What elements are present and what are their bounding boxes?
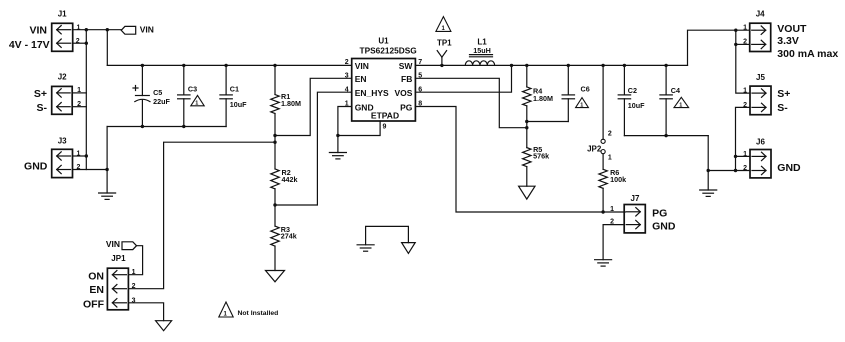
svg-text:C2: C2 [628, 86, 637, 95]
svg-text:ON: ON [88, 270, 104, 282]
svg-text:J5: J5 [756, 73, 765, 82]
ground (U1, earth bars) [329, 153, 346, 159]
inductor L1 15uH [465, 37, 494, 65]
svg-text:GND: GND [24, 161, 48, 173]
wire U1 EN_HYS to R2/R3 node [275, 92, 352, 205]
svg-text:2: 2 [743, 39, 747, 46]
svg-text:JP1: JP1 [111, 254, 126, 263]
resistor R6 100k [599, 154, 626, 189]
svg-text:576k: 576k [533, 152, 549, 161]
resistor R5 576k [523, 145, 550, 167]
svg-text:C6: C6 [581, 85, 590, 94]
wire U1 GND to ground [338, 107, 352, 153]
junction dots VOUT rail [440, 64, 668, 67]
net flag VIN (top) [121, 25, 154, 35]
svg-text:1: 1 [132, 269, 136, 276]
wire ETPAD pin9 stub [338, 121, 380, 136]
wire R6 to PG node [602, 188, 604, 212]
svg-text:VIN: VIN [140, 25, 154, 35]
svg-text:EN: EN [355, 74, 367, 84]
wire J4.2 branch to J5.1 [736, 30, 750, 93]
wire VOUT rail riser to J4 [688, 30, 750, 65]
resistor R3 274k [271, 225, 297, 246]
wire J4 pin2 stub [736, 43, 750, 45]
resistor R2 442k [271, 168, 298, 189]
svg-text:J7: J7 [631, 194, 640, 203]
wire J3 pin2 to ground drop [73, 169, 108, 171]
svg-text:1: 1 [743, 88, 747, 95]
ground (output, earth bars) [700, 190, 717, 196]
wire VIN flag to JP1 pin1 [128, 246, 142, 275]
wire input bus vertical (J1.2-J2-J3) [85, 30, 87, 170]
wire J2 pin1 stub [72, 92, 86, 94]
ground triangle (R5) [519, 186, 535, 199]
wire input ground rail (caps bottom) [107, 126, 226, 128]
wire ground tie bracket [366, 226, 409, 244]
svg-text:15uH: 15uH [473, 46, 491, 55]
svg-text:TP1: TP1 [437, 39, 452, 48]
U1 pin numbers [345, 59, 423, 130]
svg-text:JP2: JP2 [587, 144, 602, 153]
test point TP1 [437, 39, 452, 66]
connector J7 (PG/GND) [610, 194, 676, 233]
connector J5 (sense S+/S-) [743, 73, 790, 115]
svg-text:S+: S+ [777, 88, 790, 100]
svg-text:C1: C1 [230, 85, 239, 94]
wire J1 pin2 stub [73, 42, 87, 44]
svg-text:C4: C4 [671, 86, 680, 95]
svg-text:J4: J4 [756, 9, 765, 18]
svg-text:100k: 100k [610, 175, 626, 184]
svg-text:1: 1 [679, 103, 682, 109]
not-installed marker triangle 1 (TP1) [436, 17, 451, 32]
capacitor C4 (not installed) [660, 65, 680, 135]
wire R1-R2 node (EN divider) [274, 114, 276, 169]
svg-text:1: 1 [195, 101, 198, 107]
svg-text:S-: S- [37, 102, 48, 114]
wire output ground drop [707, 136, 709, 190]
svg-text:PG: PG [652, 207, 667, 219]
svg-text:1: 1 [743, 151, 747, 158]
svg-text:ETPAD: ETPAD [371, 110, 399, 120]
capacitor C3 (not installed) [178, 65, 198, 126]
wire J1 pin1 to VIN flag [73, 29, 122, 31]
wire JP1 pin3 to ground triangle [128, 303, 163, 321]
junction dots input bus [85, 28, 109, 171]
wire VIN rail (node VIN) [107, 64, 351, 66]
svg-text:1.80M: 1.80M [533, 94, 553, 103]
svg-text:PG: PG [400, 102, 413, 112]
connector JP1 (ON/EN/OFF header) [83, 254, 136, 310]
wire U1 VOS to VOUT rail [415, 65, 511, 92]
svg-text:J2: J2 [58, 73, 67, 82]
svg-text:3.3V: 3.3V [777, 35, 799, 47]
svg-text:2: 2 [743, 102, 747, 109]
ground triangle (JP1) [156, 321, 172, 331]
not-installed marker triangle 1 (C4) [674, 97, 689, 108]
svg-text:10uF: 10uF [230, 100, 247, 109]
connector J2 (sense S+/S-) [34, 73, 81, 115]
wire J5.2 branch to J6 [736, 107, 751, 170]
svg-text:2: 2 [743, 165, 747, 172]
svg-text:EN_HYS: EN_HYS [355, 88, 389, 98]
net flag VIN (JP1) [106, 239, 137, 250]
svg-text:OFF: OFF [83, 298, 105, 310]
svg-text:J3: J3 [58, 137, 67, 146]
ground triangle (tie) [402, 243, 416, 254]
svg-text:274k: 274k [281, 231, 297, 240]
connector J6 (GND) [743, 138, 801, 178]
wire R3 to ground triangle [274, 246, 276, 270]
resistor R1 1.80M [271, 65, 301, 113]
svg-text:C5: C5 [153, 88, 162, 97]
wire U1 EN to R1/R2 node [275, 78, 352, 135]
svg-text:S-: S- [777, 102, 788, 114]
svg-text:1: 1 [743, 25, 747, 32]
connector J3 (GND) [24, 137, 80, 178]
wire J6 pin2 to ground rail [708, 170, 750, 172]
svg-text:9: 9 [383, 123, 387, 130]
wire U1 PG to J7 (node PG) [415, 107, 625, 213]
wire SW rail / VOUT node [415, 64, 687, 66]
svg-text:GND: GND [777, 162, 801, 174]
op-amp/regulator U1 TPS62125DSG [352, 36, 417, 121]
wire R4 to R5 (FB node) [526, 106, 528, 148]
svg-text:1: 1 [610, 206, 614, 213]
svg-text:2: 2 [345, 59, 349, 66]
svg-text:2: 2 [76, 38, 80, 45]
svg-text:1: 1 [608, 155, 612, 162]
ground (tie, earth bars) [357, 245, 374, 251]
ground (J7, earth bars) [595, 260, 612, 266]
jumper JP2 [587, 65, 612, 161]
svg-text:VOUT: VOUT [777, 23, 807, 35]
wire J7 pin2 to ground [603, 225, 624, 260]
not-installed marker triangle 1 (C6) [576, 98, 589, 109]
connector J1 (VIN input) [9, 10, 81, 52]
svg-text:C3: C3 [188, 85, 197, 94]
wire JP1 pin2 to EN node [128, 142, 275, 289]
capacitor C6 (not installed) [562, 65, 590, 121]
svg-text:22uF: 22uF [153, 97, 170, 106]
svg-text:SW: SW [399, 61, 414, 71]
wire R2-R3 node [274, 189, 276, 226]
wire U1 FB to R4/R5 node [415, 78, 526, 127]
resistor R4 1.80M [523, 65, 553, 106]
connector J4 (VOUT) [743, 9, 838, 60]
wire output ground rail [624, 135, 708, 137]
svg-text:442k: 442k [282, 175, 298, 184]
wire ground drop left [106, 127, 108, 194]
wire R5 to ground triangle [526, 167, 528, 187]
svg-text:U1: U1 [378, 36, 389, 45]
svg-text:VOS: VOS [394, 88, 412, 98]
legend: not-installed triangle symbol [219, 302, 233, 317]
ground triangle (R3) [266, 271, 285, 282]
svg-text:EN: EN [89, 284, 104, 296]
svg-text:1.80M: 1.80M [281, 99, 301, 108]
wire J2 pin2 stub [72, 106, 86, 108]
capacitor C5 22uF (polarized) [133, 65, 170, 126]
wire FB node to C6 bottom [527, 121, 569, 123]
svg-text:2: 2 [608, 130, 612, 137]
svg-text:VIN: VIN [106, 239, 120, 249]
svg-text:4V - 17V: 4V - 17V [9, 39, 50, 51]
svg-text:J1: J1 [58, 10, 67, 19]
not-installed marker triangle 1 (C3) [191, 95, 204, 106]
wire J6 pin1 stub [736, 155, 751, 157]
svg-text:Not Installed: Not Installed [238, 310, 279, 317]
ground (input, earth bars) [99, 193, 116, 199]
svg-text:300 mA max: 300 mA max [777, 48, 838, 60]
wire J3 pin1 stub [73, 155, 87, 157]
svg-text:1: 1 [580, 103, 583, 109]
svg-text:VIN: VIN [355, 61, 369, 71]
wire VIN riser to rail [106, 30, 108, 66]
svg-text:J6: J6 [756, 138, 765, 147]
svg-text:TPS62125DSG: TPS62125DSG [360, 45, 417, 55]
svg-text:VIN: VIN [29, 24, 47, 36]
svg-text:GND: GND [652, 221, 676, 233]
svg-text:FB: FB [401, 74, 412, 84]
svg-text:10uF: 10uF [628, 101, 645, 110]
junction dots VIN rail [141, 64, 277, 67]
capacitor C2 10uF [618, 65, 645, 135]
svg-text:S+: S+ [34, 88, 47, 100]
capacitor C1 10uF [220, 65, 247, 126]
svg-text:L1: L1 [477, 37, 487, 46]
